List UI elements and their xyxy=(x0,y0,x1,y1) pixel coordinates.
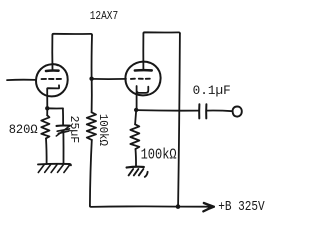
wire C1 bottom lead xyxy=(62,131,64,164)
ground G1 hatches xyxy=(38,165,70,173)
wire R1 to ground xyxy=(45,138,48,163)
wire node A to resistor R1 xyxy=(46,108,48,115)
resistor R1 820 zigzag xyxy=(41,115,49,138)
wire node D down to resistor R3 xyxy=(135,110,136,124)
triode V2 grid dashes xyxy=(131,78,150,80)
triode V1 envelope xyxy=(36,64,68,96)
triode V1 grid dashes xyxy=(42,78,62,80)
wire R3 to ground xyxy=(135,149,138,167)
wire C2 to output terminal xyxy=(207,110,233,113)
triode V1 plate lead xyxy=(51,35,53,70)
ground G2 comma tick xyxy=(145,172,148,177)
capacitor C2 0.1uF left plate xyxy=(198,104,200,118)
node E junction dot xyxy=(176,204,181,209)
wire B+ vertical line xyxy=(178,34,180,206)
resistor R3 100k zigzag xyxy=(130,124,139,149)
wire V1 plate to top corner xyxy=(52,34,92,35)
ground G2 hatches xyxy=(129,169,144,175)
wire R2 to bottom rail xyxy=(90,140,92,206)
wire down to node B xyxy=(91,35,93,79)
triode V1 cathode xyxy=(47,85,59,107)
node B junction dot xyxy=(89,77,93,81)
svg-text:820Ω: 820Ω xyxy=(9,123,38,137)
node D junction dot xyxy=(134,108,138,112)
wire input to V1 grid xyxy=(7,79,36,81)
wire C1 top lead xyxy=(62,108,64,124)
wire node A to capacitor C1 branch xyxy=(47,107,63,109)
bottom rail wire xyxy=(90,206,178,207)
wire node B to V2 grid xyxy=(92,78,126,80)
arrow shaft to B+ xyxy=(178,206,213,208)
output terminal circle xyxy=(233,106,242,116)
wire V2 plate to top corner xyxy=(143,32,180,33)
svg-text:12AX7: 12AX7 xyxy=(90,9,119,23)
triode V2 cathode xyxy=(137,86,149,110)
capacitor C1 polarity diagonal xyxy=(56,126,69,136)
svg-text:100kΩ: 100kΩ xyxy=(96,114,110,146)
svg-text:+B 325V: +B 325V xyxy=(218,200,265,215)
ground G2 bar xyxy=(127,166,144,169)
triode V2 plate bar xyxy=(135,69,152,72)
wire node B down to resistor R2 xyxy=(91,79,93,113)
capacitor C1 25uF bottom plate xyxy=(57,129,69,134)
svg-text:0.1µF: 0.1µF xyxy=(193,84,231,98)
node A junction dot xyxy=(45,106,49,110)
svg-text:100kΩ: 100kΩ xyxy=(141,147,177,163)
triode V1 plate bar xyxy=(46,69,59,72)
wire node D to coupling capacitor C2 xyxy=(136,109,198,112)
triode V2 plate lead xyxy=(142,33,144,69)
capacitor C2 0.1uF right plate xyxy=(205,104,207,118)
resistor R2 100k zigzag xyxy=(87,112,96,140)
triode V2 envelope xyxy=(125,62,160,96)
ground G1 bar xyxy=(38,164,71,166)
svg-text:25µF: 25µF xyxy=(67,116,81,144)
arrowhead xyxy=(203,203,214,211)
capacitor C1 25uF top plate xyxy=(57,124,71,127)
